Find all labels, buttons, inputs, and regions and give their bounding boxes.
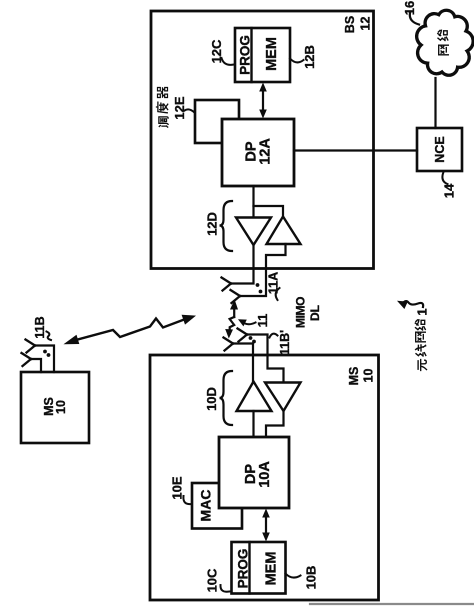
memory box PROG/MEM 12C/12B [235,28,290,82]
svg-text:12B: 12B [302,45,317,69]
svg-text:11A: 11A [267,272,281,294]
svg-text:PROG: PROG [236,549,251,589]
svg-text:10E: 10E [170,476,185,499]
svg-text:10D: 10D [204,387,219,411]
leader arrow 11 [243,322,256,325]
svg-text:10A: 10A [257,461,273,488]
svg-text:1: 1 [415,308,430,315]
antenna 11B' fork 1 [238,329,248,342]
svg-text:NCE: NCE [433,136,447,162]
antenna 11B fork 1 [26,340,36,353]
label 网络 in cloud [438,30,449,55]
leader 10E [183,496,191,504]
network cloud 16 [417,10,474,75]
wireless link up arrow [233,305,235,317]
label BS 12 [343,16,373,33]
svg-text:11: 11 [255,314,270,328]
MAC box 10E [192,483,242,529]
svg-text:MEM: MEM [264,552,280,586]
svg-text:MEM: MEM [264,37,280,71]
leader 12C [222,58,235,65]
brace 12D [220,201,233,251]
label 无线网络 1 [415,308,430,370]
dots between antennas [256,283,260,287]
svg-text:11B: 11B [33,316,47,338]
amplifier RX triangle (10D left, up) [237,382,272,412]
wireless link lightning jag [230,317,235,334]
svg-text:10: 10 [362,369,376,383]
leader squiggle + arrow for 无线网络1 [404,301,423,307]
svg-text:12: 12 [359,17,373,31]
processor box DP 12A [222,119,294,186]
leader 12E [185,109,195,112]
wire DP to NCE [294,149,417,151]
amplifier TX triangle (10D right, down) [265,383,301,412]
leader 10B [286,574,301,578]
memory box PROG/MEM 10C/10B [232,542,286,594]
arrow MEM-DP [262,87,264,114]
svg-text:10B: 10B [304,566,319,590]
antenna 11B' fork 2 [224,338,234,351]
svg-text:MIMO: MIMO [294,297,308,328]
label MIMO DL [294,297,323,328]
leader 14 [442,172,447,184]
scan artifact line [310,603,474,605]
svg-text:12E: 12E [172,96,187,119]
leader 12B [290,59,304,63]
svg-text:PROG: PROG [238,35,253,75]
divider PROG/MEM [250,28,252,82]
svg-text:DL: DL [308,305,322,321]
wire RX amp to antenna 2 [240,244,286,296]
lightning bolt double arrow [72,318,188,341]
left mobile station box MS 10 [21,372,89,443]
divider bottom PROG/MEM [248,542,250,594]
dots left MS antennas [43,350,47,354]
svg-text:14: 14 [442,183,457,198]
MS antennas 11B' wires [247,335,284,383]
MS box 10 [150,355,379,600]
leader 11B [47,332,52,341]
arrow DP10A-MEM [265,513,267,537]
scheduler box 12E [195,100,239,143]
BS box 12 [151,11,374,269]
wire cloud to NCE [434,78,436,128]
label MS 10 [347,367,376,386]
antenna 11B fork 2 [22,353,32,366]
leader 11B' [270,334,278,338]
svg-text:12A: 12A [258,138,274,165]
wire TX amp to antenna 1 [231,245,254,284]
antenna 11A fork 2 [231,290,241,303]
amplifier TX triangle (12D left) [236,218,271,246]
dots between MS antennas [249,336,253,340]
NCE box 14 [417,128,462,171]
left MS antenna wires [35,346,54,373]
antenna 11A fork 1 [222,278,232,291]
processor box DP 10A [219,437,289,508]
leader 11A [276,288,280,300]
svg-text:11B': 11B' [278,330,292,355]
amplifier RX triangle (12D right) [267,217,301,245]
wire amps to DP 10A [252,411,254,437]
leader 10C [220,585,229,592]
svg-text:MS: MS [347,367,361,386]
leader 16 [410,13,419,25]
svg-text:12D: 12D [205,212,220,236]
svg-text:MAC: MAC [198,490,214,522]
label 调度器 12E [157,88,188,128]
svg-text:10: 10 [54,400,68,414]
brace 10D [220,371,233,425]
svg-text:BS: BS [343,16,357,33]
wire DP to amplifiers [252,186,254,217]
wireless link down arrow [225,329,233,339]
svg-text:10C: 10C [205,568,220,592]
wire branch to RX amp [254,206,284,216]
